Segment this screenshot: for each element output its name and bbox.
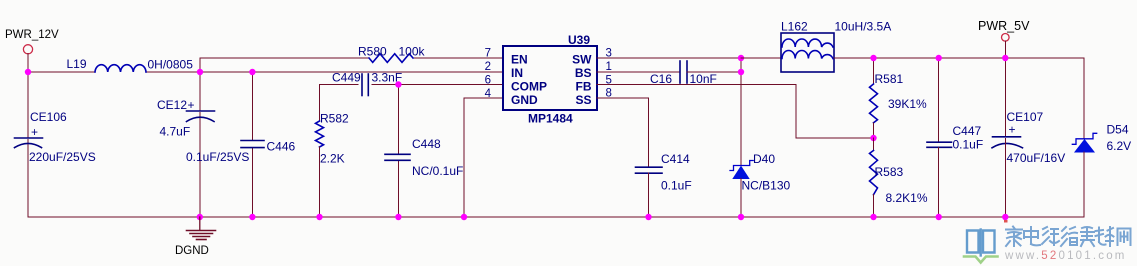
svg-text:SW: SW [572,53,592,67]
junction dot SW node top [738,55,744,61]
svg-text:2: 2 [485,61,491,73]
svg-text:C446: C446 [267,140,296,154]
svg-text:PWR_5V: PWR_5V [978,19,1030,33]
svg-text:EN: EN [511,53,528,67]
wire C448 branch down from COMP line [397,85,399,155]
terminal circle PWR_12V [23,45,32,54]
capacitor CE106 [15,138,43,148]
junction dot 5V rail at CE107 [1002,55,1008,61]
wire left vertical from PWR_12V terminal down to CE106 top [27,54,29,137]
junction dot 5V rail at C447 [936,55,942,61]
wire CE107 branch from 5V rail [1004,58,1006,136]
junction dot C446 tap [249,69,255,75]
svg-text:+: + [188,98,195,112]
wire SW node to L162 [741,57,781,59]
inductor L19 [95,65,146,72]
wire 5V rail corner down to D54 [1083,58,1085,138]
svg-text:2.2K: 2.2K [320,152,345,166]
svg-text:R583: R583 [875,165,904,179]
wire C414 bottom to ground rail [648,173,650,217]
watermark chinese glyph strokes 家电维修资料网 [1006,227,1131,247]
wire COMP line left segment with corner down to R582 [320,85,359,122]
watermark red tick [1004,220,1008,223]
svg-text:SS: SS [575,93,591,107]
wire C448 bottom to ground rail [397,161,399,218]
watermark book icon [967,230,995,256]
svg-text:C449: C449 [332,71,361,85]
capacitor C446 [241,141,264,148]
svg-text:U39: U39 [568,33,590,47]
svg-text:39K1%: 39K1% [888,97,927,111]
junction dot L19 output node [197,69,203,75]
wire COMP line right of C449 to pin 6 [372,84,503,86]
svg-text:PWR_12V: PWR_12V [5,29,59,41]
svg-text:C16: C16 [650,72,672,86]
wire R581 top from 5V rail [873,58,875,84]
svg-text:0.1uF: 0.1uF [661,179,692,193]
junction dot FB node [870,135,876,141]
svg-text:R580: R580 [358,45,387,59]
svg-text:R582: R582 [320,112,349,126]
junction dot C448 tap on COMP line [395,81,401,87]
capacitor C448 [385,154,410,160]
svg-text:DGND: DGND [175,245,209,257]
wire EN line right of R580 to pin 7 [413,57,503,59]
wire C16 right plate to SW node vertical [687,71,741,73]
svg-text:D40: D40 [753,152,775,166]
svg-text:C447: C447 [953,124,982,138]
capacitor C449 [362,74,368,96]
svg-text:MP1484: MP1484 [528,112,573,126]
wire EN line left of R580 [200,57,369,59]
wire CE12 branch down from 12V rail [199,72,201,110]
wire EN branch vertical at x=200 [199,58,201,72]
svg-text:L162: L162 [781,20,808,34]
resistor R582 [316,121,324,147]
svg-text:C448: C448 [412,137,441,151]
wire 12V rail from L19 to IC pin IN [146,71,503,73]
junction dots on ground rail [197,214,203,220]
wire SS pin 8 over and down to C414 [597,98,649,167]
wire bottom ground rail [28,216,1084,218]
wire GND pin 4 to ground drop [464,98,503,217]
wire R581 bottom to FB node [873,123,875,138]
wire D54 anode to ground rail [1083,152,1085,217]
svg-text:+: + [31,125,38,139]
svg-text:10nF: 10nF [690,72,717,86]
svg-text:NC/0.1uF: NC/0.1uF [412,164,463,178]
svg-text:FB: FB [576,80,592,94]
junction dot at PWR_12V node [25,69,31,75]
svg-text:CE106: CE106 [30,110,67,124]
wire CE107 bottom to ground rail [1004,138,1006,217]
diode D40 (NC/B130) [730,161,753,179]
wire left vertical from CE106 bottom to ground rail [27,140,29,218]
wire D40 anode to ground rail [740,179,742,218]
svg-text:470uF/16V: 470uF/16V [1007,151,1066,165]
svg-text:6: 6 [485,75,491,87]
capacitor C447 [927,142,952,147]
wire FB node to R583 top [873,138,875,151]
svg-text:GND: GND [511,93,538,107]
resistor R581 [870,84,878,123]
diode D54 (zener 6.2V) [1072,133,1096,152]
svg-text:NC/B130: NC/B130 [742,179,791,193]
capacitor CE107 [992,137,1023,148]
svg-text:1: 1 [606,61,612,73]
svg-text:R581: R581 [875,72,904,86]
capacitor C16 [680,61,687,83]
svg-text:7: 7 [485,48,491,60]
wire CE12 bottom to ground rail [199,113,201,218]
junction dot C16 to SW vertical [738,69,744,75]
svg-text:8.2K1%: 8.2K1% [886,191,928,205]
svg-text:6.2V: 6.2V [1107,139,1132,153]
svg-text:4: 4 [485,88,492,100]
svg-text:220uF/25VS: 220uF/25VS [29,150,96,164]
wire FB pin 5 over and down to divider [597,85,874,139]
wire BS pin 1 to C16 [597,71,680,73]
terminal circle PWR_5V [1002,34,1010,42]
wire 12V rail left segment to L19 [28,71,95,73]
svg-text:100k: 100k [399,45,426,59]
resistor R580 [369,54,413,63]
svg-text:www.520101.com: www.520101.com [1004,250,1127,262]
wire SW node vertical down through C16 tap to D40 [740,58,742,165]
wire C447 bottom to ground rail [938,147,940,217]
watermark green ribbon [964,257,998,263]
svg-text:0.1uF/25VS: 0.1uF/25VS [186,150,249,164]
svg-text:0.1uF: 0.1uF [953,138,984,152]
svg-text:COMP: COMP [511,80,547,94]
svg-text:IN: IN [511,66,523,80]
svg-text:D54: D54 [1107,123,1129,137]
op-amp U39 MP1484 IC body [503,46,597,110]
svg-text:10uH/3.5A: 10uH/3.5A [835,20,892,34]
wire C447 branch from 5V rail [938,58,940,142]
inductor L162 [781,33,834,72]
wire R583 bottom to ground rail [873,195,875,217]
svg-text:L19: L19 [67,57,87,71]
wire L162 to 5V rail [834,57,1084,59]
svg-text:4.7uF: 4.7uF [160,125,191,139]
wire C446 bottom to ground rail [251,148,253,217]
junction dot 5V rail at R581 [870,55,876,61]
wire SW pin 3 to D40 node [597,57,741,59]
svg-text:C414: C414 [661,152,690,166]
resistor R583 [870,151,878,195]
svg-text:BS: BS [575,66,592,80]
wire C446 branch down from 12V rail [251,72,253,140]
wire PWR_5V stub [1004,41,1006,58]
capacitor CE12 [187,111,215,122]
svg-text:CE12: CE12 [157,98,187,112]
capacitor C414 [636,167,663,173]
wire R582 bottom to ground rail [319,147,321,217]
svg-text:0H/0805: 0H/0805 [148,58,194,72]
svg-text:+: + [1009,123,1016,137]
ground DGND symbol [187,217,216,240]
